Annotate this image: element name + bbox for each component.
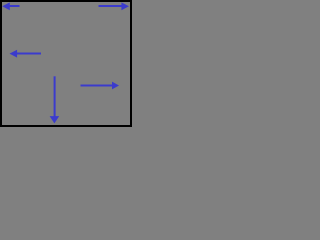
arrow V5 (right-lower, pointing right) <box>81 82 120 90</box>
arrow V1 (top-left, pointing left) <box>2 2 19 10</box>
arrow V3 (left-middle, pointing left) <box>10 50 42 58</box>
arrow V2 (top-right, pointing right) <box>99 2 130 10</box>
arrow V4 (center-bottom, pointing down) <box>50 76 60 123</box>
